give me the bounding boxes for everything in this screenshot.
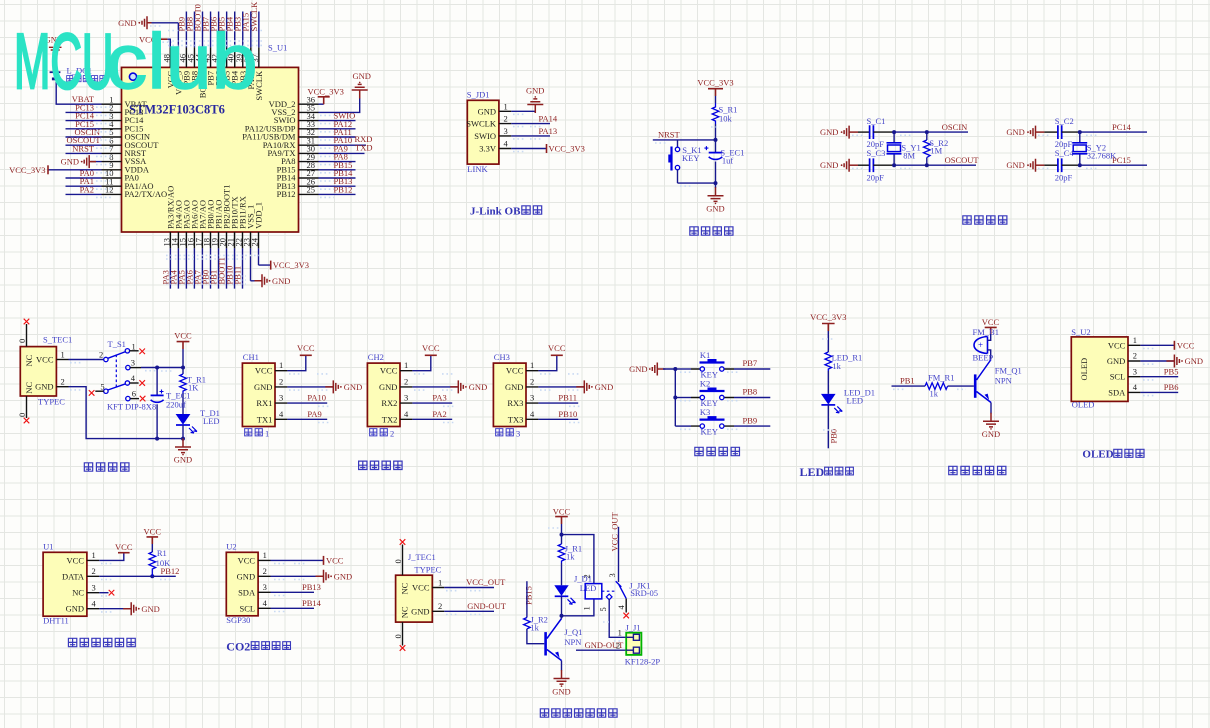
junction node R2 bottom bbox=[925, 163, 929, 167]
svg-text:TX3: TX3 bbox=[508, 414, 524, 424]
S_TEC1 shield pin bottom bbox=[17, 396, 29, 423]
svg-text:TXD: TXD bbox=[355, 143, 372, 153]
connector CH3 body bbox=[493, 363, 526, 426]
ground (buzzer) bbox=[982, 413, 1000, 439]
svg-text:NPN: NPN bbox=[995, 376, 1012, 386]
resistor FM_R1 1k bbox=[925, 373, 954, 399]
MCU left pin stubs bbox=[102, 104, 122, 194]
ground (C1) bbox=[820, 126, 858, 139]
svg-text:4: 4 bbox=[131, 373, 136, 383]
power port VCC (power circuit) bbox=[174, 331, 192, 349]
svg-text:PB15: PB15 bbox=[524, 586, 534, 605]
power port VCC_3V3 at VDD_2 pin36 bbox=[308, 87, 344, 105]
svg-text:NC: NC bbox=[399, 582, 409, 594]
label 串口3 bbox=[496, 428, 521, 438]
svg-text:10k: 10k bbox=[719, 114, 733, 124]
wire PB1 to FM_R1 bbox=[892, 385, 926, 387]
svg-text:2: 2 bbox=[61, 377, 65, 387]
title 按键电路 bbox=[695, 447, 740, 455]
resistor LED_R1 1k bbox=[825, 352, 862, 371]
svg-text:20pF: 20pF bbox=[867, 172, 885, 182]
wire LED to gnd rail bbox=[182, 425, 184, 439]
svg-text:CH3: CH3 bbox=[494, 352, 510, 362]
svg-text:VCC_3V3: VCC_3V3 bbox=[697, 78, 733, 88]
wire relay pin4 bbox=[625, 599, 627, 613]
svg-text:S_C1: S_C1 bbox=[867, 116, 886, 126]
svg-text:4: 4 bbox=[263, 598, 268, 608]
svg-text:TYPEC: TYPEC bbox=[38, 397, 65, 407]
relay switch blade and contacts bbox=[598, 573, 626, 611]
svg-text:VDD_1: VDD_1 bbox=[254, 202, 264, 229]
junction node at cap bottom bbox=[714, 181, 718, 185]
svg-text:NC: NC bbox=[399, 606, 409, 618]
svg-text:S_C2: S_C2 bbox=[1055, 116, 1074, 126]
power port VCC_3V3 (LED) bbox=[810, 312, 846, 331]
CH2 pin names bbox=[379, 366, 398, 425]
resistor R1 10K bbox=[149, 544, 171, 576]
svg-text:PA9: PA9 bbox=[307, 409, 321, 419]
svg-text:GND: GND bbox=[1185, 356, 1203, 366]
CH3 pin stubs bbox=[526, 371, 538, 420]
svg-text:1: 1 bbox=[438, 577, 442, 587]
svg-text:0: 0 bbox=[393, 634, 403, 638]
S_U2 pin stubs bbox=[1128, 345, 1140, 392]
key K1 bbox=[691, 350, 734, 380]
svg-text:LED: LED bbox=[580, 583, 597, 593]
svg-text:DHT11: DHT11 bbox=[43, 616, 69, 626]
MCU left pin names (inside) bbox=[125, 99, 168, 199]
svg-text:J_J1: J_J1 bbox=[626, 623, 641, 633]
capacitor S_C1 20pF bbox=[867, 116, 886, 149]
LED LED_D1 bbox=[821, 388, 875, 413]
wire CH3 pin3 net PB11 bbox=[538, 393, 578, 403]
svg-text:LED: LED bbox=[203, 416, 220, 426]
svg-text:S_JD1: S_JD1 bbox=[467, 90, 490, 100]
svg-text:FM_Q1: FM_Q1 bbox=[995, 366, 1022, 376]
U2 pin numbers bbox=[263, 550, 268, 608]
svg-text:PB6: PB6 bbox=[1164, 382, 1179, 392]
svg-text:S_C3: S_C3 bbox=[867, 148, 886, 158]
ground at VSS_2 pin35 bbox=[352, 71, 371, 99]
svg-text:GND: GND bbox=[595, 382, 613, 392]
wire gnd to C3 bbox=[858, 164, 870, 166]
wire C1 to OSCIN node bbox=[873, 131, 894, 133]
relay J_JK1 SRD-05 coil bbox=[581, 574, 658, 610]
svg-text:S_C4: S_C4 bbox=[1055, 148, 1075, 158]
wire gnd to C2 bbox=[1044, 131, 1058, 133]
wire J_R1 to LED J_D1 bbox=[561, 563, 563, 585]
CH2 pin numbers bbox=[404, 360, 409, 419]
wire U1 pin4 to gnd bbox=[99, 608, 131, 610]
junction node R2 top bbox=[925, 130, 929, 134]
wire VCC_3V3 to R1 bbox=[715, 96, 717, 103]
bottom wire key/cap bbox=[678, 182, 716, 184]
svg-text:3.3V: 3.3V bbox=[479, 144, 497, 154]
svg-text:2: 2 bbox=[92, 566, 96, 576]
wire U1 pin1 to VCC bbox=[99, 553, 124, 561]
svg-text:GND: GND bbox=[35, 382, 53, 392]
svg-text:0: 0 bbox=[393, 559, 403, 563]
svg-text:SCL: SCL bbox=[240, 603, 256, 613]
wire gnd bus bbox=[663, 369, 675, 426]
svg-text:PB1: PB1 bbox=[900, 376, 915, 386]
MCU bottom pin stubs bbox=[170, 232, 258, 248]
svg-text:PB0: PB0 bbox=[829, 429, 839, 444]
svg-text:5: 5 bbox=[598, 607, 608, 611]
junction node NRST bbox=[714, 138, 718, 142]
junction node at VCC line bbox=[181, 366, 185, 370]
battery L_DC1 (button cell) bbox=[50, 60, 92, 79]
wire Q1 emitter to gnd bbox=[561, 661, 563, 671]
svg-text:KFT DIP-8X8: KFT DIP-8X8 bbox=[107, 402, 156, 412]
svg-text:GND: GND bbox=[706, 204, 724, 214]
module S_U2 body bbox=[1071, 337, 1128, 402]
svg-text:RX3: RX3 bbox=[507, 398, 523, 408]
svg-text:SDA: SDA bbox=[1108, 387, 1126, 397]
CH1 pin numbers bbox=[279, 360, 284, 419]
ERC no-check dotted marks bbox=[70, 26, 1155, 641]
wire C2 to PC14 node bbox=[1062, 131, 1080, 133]
wire CH2 pin3 net PA3 bbox=[412, 393, 452, 403]
S_TEC1 shield pin top bbox=[17, 319, 29, 347]
wire S_U2 pin3 net PB5 bbox=[1140, 366, 1178, 376]
title 电源电路 bbox=[84, 463, 129, 471]
svg-text:3: 3 bbox=[92, 582, 96, 592]
wire node to PC14 label bbox=[1080, 131, 1147, 133]
S_JD1 pin names bbox=[466, 106, 497, 153]
MCU top pin numbers 48-37 bbox=[161, 53, 260, 62]
logo MCUclub bbox=[14, 22, 113, 100]
no-connect X at U1 pin3 bbox=[109, 590, 115, 596]
wire LED_D1 to net PB0 bbox=[827, 405, 829, 448]
S_JD1 pin numbers 1-4 bbox=[504, 101, 509, 148]
svg-text:RX1: RX1 bbox=[256, 398, 272, 408]
capacitor S_C4 20pF bbox=[1055, 148, 1075, 183]
svg-text:KEY: KEY bbox=[701, 427, 718, 437]
svg-text:OSCIN: OSCIN bbox=[942, 122, 968, 132]
svg-text:PB7: PB7 bbox=[743, 358, 758, 368]
svg-text:NRST: NRST bbox=[658, 130, 681, 140]
svg-text:4: 4 bbox=[616, 605, 626, 610]
CH1 pin stubs bbox=[275, 371, 287, 420]
S_TEC1 pin1 stub bbox=[56, 359, 68, 361]
key K2 bbox=[691, 379, 734, 409]
S_JD1 pin stubs bbox=[499, 111, 511, 148]
wire gnd to C1 bbox=[858, 131, 870, 133]
wire U1 pin3 NC bbox=[99, 592, 108, 594]
svg-text:J_TEC1: J_TEC1 bbox=[408, 552, 436, 562]
svg-text:0: 0 bbox=[17, 339, 27, 343]
svg-text:GND: GND bbox=[141, 604, 159, 614]
wire R1 to NRST node bbox=[715, 124, 717, 140]
MCU right pin numbers 36-25 bbox=[307, 94, 316, 194]
svg-text:4: 4 bbox=[92, 598, 97, 608]
ground (CH2) bbox=[450, 380, 487, 393]
J_TEC1 shield pin top bbox=[393, 539, 405, 575]
ground (reset) bbox=[706, 183, 724, 213]
crystal S_Y2 32.768K bbox=[1072, 132, 1117, 165]
junction node gnd rail bbox=[181, 437, 185, 441]
svg-text:K3: K3 bbox=[700, 407, 710, 417]
svg-text:GND: GND bbox=[272, 276, 290, 286]
power port VCC_3V3 (reset) bbox=[697, 78, 733, 97]
wire GND-OUT to J_J1 pin2 bbox=[576, 649, 626, 651]
svg-text:1: 1 bbox=[132, 341, 136, 351]
svg-text:KEY: KEY bbox=[682, 153, 699, 163]
svg-text:PB11: PB11 bbox=[558, 393, 577, 403]
capacitor S_C3 20pF bbox=[867, 148, 886, 183]
svg-text:LINK: LINK bbox=[467, 164, 488, 174]
title 蜂鸣器电路 bbox=[949, 466, 1006, 474]
wire CH2 pin4 net PA2 bbox=[412, 409, 452, 419]
svg-text:VCC: VCC bbox=[982, 317, 1000, 327]
wire CH3 pin4 net PB10 bbox=[538, 409, 578, 419]
wire CH3 pin2 to gnd bbox=[538, 386, 584, 388]
svg-text:K1: K1 bbox=[700, 350, 710, 360]
junction node bus K1 bbox=[673, 367, 677, 371]
svg-text:GND: GND bbox=[820, 160, 838, 170]
resistor T_R1 1K bbox=[180, 374, 206, 393]
wire TEC1 pin2 to gnd rail bbox=[69, 387, 184, 439]
svg-text:VCC_3V3: VCC_3V3 bbox=[9, 165, 45, 175]
svg-text:VCC: VCC bbox=[1177, 341, 1195, 351]
svg-text:SGP30: SGP30 bbox=[226, 615, 250, 625]
svg-text:K2: K2 bbox=[700, 379, 710, 389]
key S_K1 bbox=[668, 140, 701, 183]
svg-text:VCC: VCC bbox=[36, 355, 54, 365]
svg-text:TX1: TX1 bbox=[257, 414, 273, 424]
wire J_TEC1 pin1 net VCC_OUT bbox=[444, 577, 506, 587]
svg-text:TX2: TX2 bbox=[382, 414, 398, 424]
svg-text:2: 2 bbox=[1133, 351, 1137, 361]
power port VCC at pin48 bbox=[139, 34, 167, 44]
S_TEC1 pin2 stub bbox=[56, 386, 68, 388]
wire S_U2 pin2 to gnd bbox=[1140, 360, 1174, 362]
svg-text:T_S1: T_S1 bbox=[108, 339, 126, 349]
svg-text:VCC: VCC bbox=[380, 366, 398, 376]
wire Q1 collector to node bbox=[561, 616, 563, 619]
wire FM_R1 to Q1 base bbox=[948, 385, 974, 387]
title 晶振电路 bbox=[963, 216, 1007, 224]
ground at VSSA pin8 bbox=[61, 155, 96, 168]
transistor J_Q1 NPN bbox=[544, 619, 582, 661]
wire Q1 emitter to gnd bbox=[990, 403, 992, 414]
svg-text:VCC_3V3: VCC_3V3 bbox=[273, 260, 309, 270]
wire gnd to C4 bbox=[1044, 164, 1058, 166]
wire U2 pin4 net PB14 bbox=[271, 598, 322, 608]
svg-text:VCC: VCC bbox=[67, 555, 85, 565]
wire K2 net PB8 bbox=[734, 387, 770, 398]
no-connect X at relay pin4 bbox=[623, 613, 629, 619]
no-connect X at S1 pin5 bbox=[89, 390, 95, 396]
no-connect X at S1 pin6 bbox=[140, 396, 146, 402]
svg-text:SDA: SDA bbox=[238, 587, 256, 597]
svg-text:2: 2 bbox=[581, 574, 591, 578]
wire J_D1 to bottom node bbox=[561, 596, 563, 616]
svg-text:SCL: SCL bbox=[1110, 372, 1126, 382]
title 复位电路 bbox=[690, 227, 733, 235]
wire R1 to LED bbox=[182, 393, 184, 414]
svg-text:1: 1 bbox=[92, 550, 96, 560]
wire bottom node to coil bottom bbox=[562, 599, 594, 616]
svg-text:GND: GND bbox=[61, 157, 79, 167]
power port VCC (relay) bbox=[553, 507, 571, 525]
svg-text:3: 3 bbox=[516, 428, 520, 438]
svg-text:1: 1 bbox=[581, 606, 591, 610]
svg-text:2: 2 bbox=[279, 376, 283, 386]
MCU bottom pin numbers 13-24 bbox=[161, 237, 259, 246]
wire node to OSCOUT label bbox=[894, 164, 976, 166]
svg-text:PB12: PB12 bbox=[277, 189, 296, 199]
ground (C3) bbox=[820, 159, 858, 172]
CH3 pin numbers bbox=[530, 360, 535, 419]
svg-text:GND: GND bbox=[982, 429, 1000, 439]
wire U2 pin2 to gnd bbox=[271, 575, 324, 577]
svg-text:VCC_3V3: VCC_3V3 bbox=[308, 87, 344, 97]
wire CH1 pin1 to VCC bbox=[287, 355, 305, 370]
svg-text:R1: R1 bbox=[157, 548, 167, 558]
svg-text:1: 1 bbox=[263, 550, 267, 560]
wire U1 pin2 DATA to net PB12 bbox=[99, 566, 179, 576]
svg-text:GND: GND bbox=[174, 455, 192, 465]
svg-text:GND: GND bbox=[820, 127, 838, 137]
wire C3 to OSCOUT node bbox=[873, 164, 894, 166]
svg-text:LED: LED bbox=[800, 465, 825, 479]
svg-text:J-Link OB: J-Link OB bbox=[470, 206, 521, 218]
svg-text:4: 4 bbox=[404, 409, 409, 419]
svg-text:PA10: PA10 bbox=[307, 393, 326, 403]
svg-text:2: 2 bbox=[438, 601, 442, 611]
svg-text:CH1: CH1 bbox=[243, 352, 259, 362]
svg-text:GND: GND bbox=[1006, 127, 1024, 137]
U2 pin stubs bbox=[258, 560, 270, 608]
wire CH1 pin4 net PA9 bbox=[287, 409, 327, 419]
U1 pin numbers bbox=[92, 550, 97, 608]
svg-text:J_Q1: J_Q1 bbox=[564, 627, 582, 637]
LED T_D1 bbox=[176, 408, 220, 433]
power port VCC_3V3 at VDDA pin9 bbox=[9, 165, 48, 175]
power port VCC (DHT11) bbox=[115, 542, 133, 553]
capacitor S_C2 20pF bbox=[1055, 116, 1074, 149]
svg-text:4: 4 bbox=[530, 409, 535, 419]
svg-text:PC14: PC14 bbox=[1112, 122, 1132, 132]
svg-text:220uf: 220uf bbox=[166, 400, 186, 410]
wire TEC1 pin1 to switch bbox=[69, 359, 104, 361]
svg-text:PA14: PA14 bbox=[539, 114, 558, 124]
junction node relay bottom bbox=[560, 614, 564, 618]
svg-text:VCC: VCC bbox=[548, 343, 566, 353]
S_TEC1 pin names bbox=[24, 354, 54, 393]
svg-text:PA2: PA2 bbox=[432, 409, 446, 419]
svg-text:LED: LED bbox=[847, 396, 864, 406]
svg-text:PA13: PA13 bbox=[539, 126, 558, 136]
junction node bus K2 bbox=[673, 396, 677, 400]
svg-text:TYPEC: TYPEC bbox=[414, 565, 441, 575]
power port VCC_3V3 at VDD_1 pin24 bbox=[271, 260, 309, 270]
svg-text:20pF: 20pF bbox=[1055, 172, 1073, 182]
svg-text:VCC: VCC bbox=[174, 331, 192, 341]
wire VCC_OUT to relay common pin3 bbox=[618, 527, 620, 582]
switch T_S1 KFT DIP-8X8 bbox=[95, 339, 156, 412]
wire U2 pin3 net PB13 bbox=[271, 582, 321, 592]
U1 pin names bbox=[62, 555, 85, 613]
svg-text:CO2: CO2 bbox=[226, 640, 250, 654]
power port VCC (buzzer) bbox=[982, 317, 1000, 334]
ground (SGP30) bbox=[316, 570, 353, 583]
title LED灯电路 bbox=[800, 465, 854, 479]
CH2 pin stubs bbox=[400, 371, 412, 420]
svg-text:1k: 1k bbox=[566, 552, 575, 562]
junction node PC14 bbox=[1078, 130, 1082, 134]
sensor U1 body bbox=[43, 552, 87, 616]
ground (buttons) bbox=[629, 363, 665, 376]
svg-text:PB8: PB8 bbox=[743, 387, 758, 397]
svg-text:U1: U1 bbox=[43, 541, 53, 551]
svg-text:VCC: VCC bbox=[144, 527, 162, 537]
ground at VSS_3 pin47 bbox=[118, 16, 151, 29]
wire S1 pin3 to VCC node bbox=[141, 367, 183, 369]
resistor S_R1 10k bbox=[712, 103, 737, 124]
svg-text:BEEP: BEEP bbox=[973, 353, 994, 363]
svg-text:1k: 1k bbox=[832, 361, 841, 371]
svg-text:1k: 1k bbox=[530, 622, 539, 632]
svg-text:CH2: CH2 bbox=[368, 352, 384, 362]
svg-text:S_TEC1: S_TEC1 bbox=[43, 335, 72, 345]
svg-text:1: 1 bbox=[618, 628, 622, 638]
svg-text:OLED: OLED bbox=[1072, 400, 1095, 410]
svg-text:S_U2: S_U2 bbox=[1071, 327, 1090, 337]
label 串口2 bbox=[370, 428, 395, 438]
wire JD1 pin4 to VCC_3V3 bbox=[511, 144, 585, 154]
crystal S_Y1 8M bbox=[887, 132, 921, 165]
svg-text:3: 3 bbox=[1133, 366, 1137, 376]
wire C4 to PC15 node bbox=[1062, 164, 1080, 166]
svg-text:GND: GND bbox=[469, 382, 487, 392]
svg-text:SWCLK: SWCLK bbox=[466, 119, 497, 129]
svg-text:2: 2 bbox=[504, 114, 508, 124]
wire S_U2 pin4 net PB6 bbox=[1140, 382, 1178, 392]
svg-text:GND: GND bbox=[552, 687, 570, 697]
svg-text:GND-OUT: GND-OUT bbox=[467, 601, 507, 611]
junction node EC1 top bbox=[155, 366, 159, 370]
wire K1 net PB7 bbox=[734, 358, 770, 369]
svg-text:4: 4 bbox=[279, 409, 284, 419]
wire node to OSCIN label bbox=[894, 131, 968, 133]
svg-text:GND: GND bbox=[66, 604, 84, 614]
connector CH2 body bbox=[367, 363, 400, 426]
svg-text:VCC_OUT: VCC_OUT bbox=[466, 577, 506, 587]
svg-text:4: 4 bbox=[504, 139, 509, 149]
power port VCC (CH2) bbox=[422, 343, 440, 355]
svg-text:GND: GND bbox=[237, 571, 255, 581]
svg-text:2: 2 bbox=[99, 350, 103, 360]
S_U2 pin names bbox=[1107, 340, 1126, 397]
svg-text:PA2/TX/AO: PA2/TX/AO bbox=[125, 189, 168, 199]
wire battery to VBAT bbox=[56, 79, 65, 104]
svg-text:3: 3 bbox=[504, 126, 508, 136]
svg-text:1: 1 bbox=[504, 101, 508, 111]
svg-text:+: + bbox=[978, 340, 983, 350]
svg-text:GND: GND bbox=[1006, 160, 1024, 170]
power port VCC (R1 pullup) bbox=[144, 527, 162, 545]
svg-text:VCC: VCC bbox=[326, 556, 344, 566]
wire CH2 pin1 to VCC bbox=[412, 355, 430, 370]
wire U2 pin1 to VCC bbox=[271, 559, 324, 561]
wire CH1 pin2 to gnd bbox=[287, 386, 333, 388]
wire bus to K2 bbox=[675, 397, 691, 399]
wire K3 net PB9 bbox=[734, 415, 770, 426]
svg-text:1: 1 bbox=[61, 350, 65, 360]
